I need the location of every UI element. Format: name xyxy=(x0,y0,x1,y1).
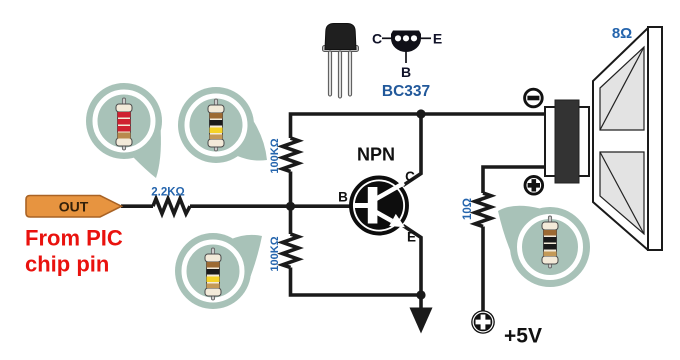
svg-text:chip pin: chip pin xyxy=(25,252,109,277)
svg-text:E: E xyxy=(407,230,416,245)
svg-text:100KΩ: 100KΩ xyxy=(269,236,281,271)
svg-text:C: C xyxy=(405,169,415,184)
terminal plus xyxy=(525,177,543,195)
svg-text:From PIC: From PIC xyxy=(25,226,123,251)
svg-text:BC337: BC337 xyxy=(382,83,430,100)
svg-text:+5V: +5V xyxy=(504,325,542,348)
lower cone gray xyxy=(600,152,644,234)
resistor 10 ohm zigzag xyxy=(475,193,491,227)
magnet dark block xyxy=(545,107,589,176)
wire collector xyxy=(403,114,421,186)
callout bubble 2.2K resistor photo xyxy=(86,83,162,178)
terminal minus xyxy=(525,89,543,107)
wire left rail middle xyxy=(289,172,293,235)
svg-text:OUT: OUT xyxy=(59,199,89,215)
svg-text:100KΩ: 100KΩ xyxy=(269,138,281,173)
speaker xyxy=(545,27,662,250)
ground xyxy=(410,295,433,334)
svg-text:10Ω: 10Ω xyxy=(462,198,474,220)
resistor R 100K bottom zigzag xyxy=(283,234,299,268)
svg-text:2.2KΩ: 2.2KΩ xyxy=(151,187,185,199)
junction node base xyxy=(286,202,295,211)
wire to +5V xyxy=(481,227,485,312)
resistor 2.2K zigzag xyxy=(153,199,190,214)
OUT arrow tag xyxy=(26,196,122,218)
callout bubble 100K resistor photo (bottom) xyxy=(175,233,262,309)
front panel xyxy=(648,27,662,250)
TO-92 pinout bottom view xyxy=(382,31,431,64)
resistor R 100K top zigzag xyxy=(283,138,299,172)
wire bottom rail xyxy=(291,268,422,296)
+5V terminal xyxy=(471,310,495,334)
junction node collector rail xyxy=(416,109,425,118)
svg-text:E: E xyxy=(433,31,442,47)
wire top rail xyxy=(291,114,547,138)
transistor Q1 NPN symbol xyxy=(351,178,407,234)
TO-92 package xyxy=(323,24,359,99)
svg-text:8Ω: 8Ω xyxy=(612,25,632,42)
upper cone gray xyxy=(600,47,644,130)
wire speaker plus branch xyxy=(483,167,546,193)
callout bubble 10 ohm resistor photo xyxy=(498,206,590,287)
svg-text:B: B xyxy=(338,190,348,205)
junction node ground xyxy=(416,290,425,299)
svg-text:NPN: NPN xyxy=(357,145,395,165)
wire emitter xyxy=(403,226,421,296)
callout bubble 100K resistor photo (top) xyxy=(178,87,267,163)
svg-text:B: B xyxy=(401,64,411,80)
cone outline xyxy=(593,28,648,250)
wire base line xyxy=(121,204,352,208)
svg-text:C: C xyxy=(372,31,382,47)
